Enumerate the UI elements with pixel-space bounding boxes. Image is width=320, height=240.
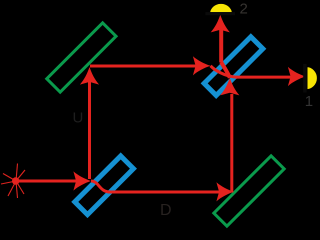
svg-text:D: D bbox=[160, 202, 172, 219]
svg-text:2: 2 bbox=[240, 1, 248, 18]
svg-text:U: U bbox=[73, 110, 84, 127]
svg-text:1: 1 bbox=[305, 93, 313, 110]
